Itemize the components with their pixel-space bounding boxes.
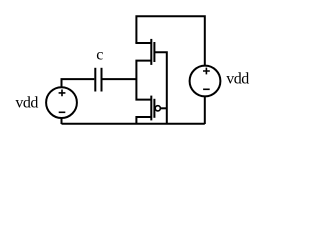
V1 minus sign — [59, 111, 66, 113]
wire V2 minus terminal down to bottom rail — [204, 97, 206, 124]
svg-text:c: c — [96, 46, 103, 63]
transistor M2 gate bubble — [155, 106, 160, 111]
capacitor C right plate — [101, 68, 103, 92]
wire M1 gate lead and right gate bus down to bottom rail — [154, 52, 166, 124]
V2 plus sign — [203, 68, 210, 75]
V2 minus sign — [203, 88, 210, 90]
wire M2 gate lead to right gate bus — [160, 107, 166, 109]
capacitor C left plate — [94, 68, 96, 92]
transistor M2 channel bar — [150, 96, 152, 121]
wire V1 minus terminal down to bottom rail — [61, 118, 63, 124]
wire capacitor right lead to middle bus node — [103, 78, 137, 80]
wire M1 drain tap — [135, 42, 151, 44]
transistor M2 gate bar — [153, 99, 155, 118]
voltage source V1 circle — [46, 87, 77, 118]
svg-text:vdd: vdd — [15, 95, 38, 112]
wire V1 plus terminal up and right to capacitor — [62, 79, 95, 87]
svg-text:vdd: vdd — [226, 71, 249, 88]
wire M1 source tap, middle bus, M2 drain tap — [136, 61, 151, 100]
wire M2 source tap down to bottom rail — [136, 117, 151, 124]
transistor M1 channel bar — [150, 39, 152, 65]
wire top rail from M1 drain corner to V2 plus terminal — [136, 16, 204, 65]
wire bottom rail — [62, 123, 205, 125]
voltage source V2 circle — [190, 66, 221, 97]
V1 plus sign — [59, 90, 66, 97]
transistor M1 gate bar — [153, 42, 155, 62]
